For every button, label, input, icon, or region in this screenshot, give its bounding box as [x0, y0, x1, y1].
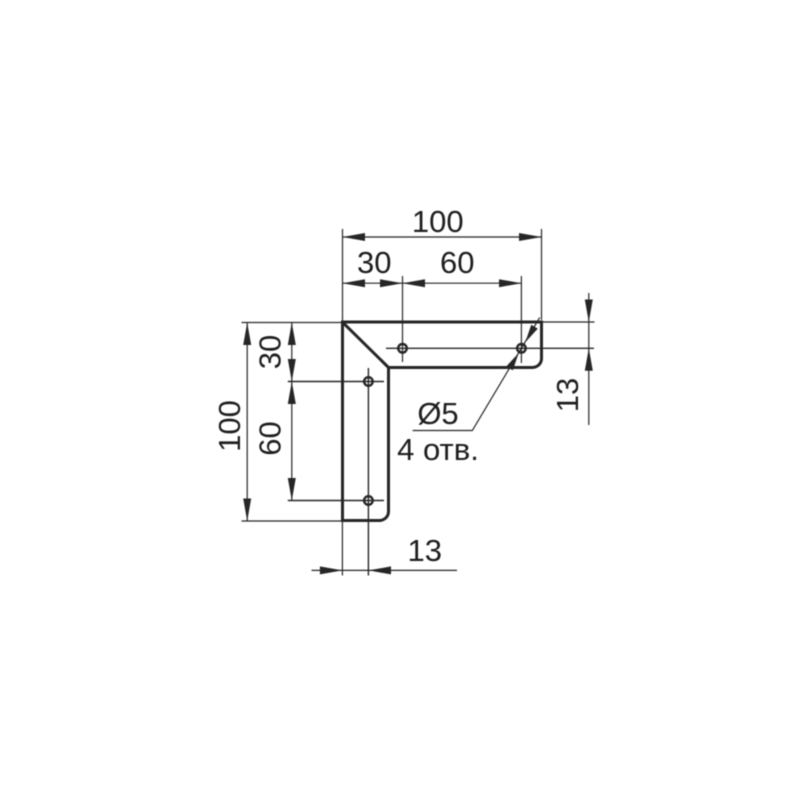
svg-text:13: 13 [408, 533, 442, 568]
arrow 60 left top [288, 382, 296, 405]
extension line top edge right [543, 321, 595, 323]
arrow 30 top left [343, 279, 366, 287]
arrow 13 right top outside [585, 300, 593, 323]
hole 2 [517, 344, 526, 353]
svg-text:Ø5: Ø5 [417, 396, 458, 431]
bracket outline [343, 322, 542, 521]
arrow 13 right bottom outside [585, 348, 593, 371]
arrow 100 left bottom [243, 499, 251, 522]
leader arrow lower pointing at hole [506, 353, 519, 370]
svg-text:100: 100 [412, 204, 464, 239]
arrow 30 left bottom [288, 359, 296, 382]
svg-text:60: 60 [440, 245, 474, 280]
extension line left edge bottom [341, 521, 343, 576]
arrow 13 bottom left outside [320, 566, 343, 574]
dimension line 100 left vertical [246, 323, 248, 522]
dimension line 100 top [343, 236, 542, 238]
hole 4 [364, 496, 373, 505]
extension line hole2 vertical [520, 276, 522, 363]
leader line under diameter label [413, 318, 540, 431]
dimension line 30-60 top [343, 282, 522, 284]
dimension line 13 right vertical [588, 293, 590, 425]
arrow 60 left bottom [288, 478, 296, 501]
dimension line 13 bottom [312, 569, 458, 571]
center line through holes 3-4 [367, 368, 369, 576]
arrow 30 top right [380, 279, 403, 287]
leader arrow upper pointing at hole [525, 325, 538, 342]
svg-text:100: 100 [212, 400, 247, 452]
dimension line 30-60 left vertical [291, 323, 293, 501]
extension line left edge top [342, 229, 344, 321]
extension line hole4 horizontal [288, 500, 384, 502]
svg-text:60: 60 [253, 421, 288, 455]
arrow 13 bottom right outside [369, 566, 392, 574]
bend line diagonal [343, 323, 389, 368]
center line through holes 1-2 [386, 347, 594, 349]
arrow 60 top left [403, 279, 426, 287]
arrow 60 top right [499, 279, 521, 287]
arrow 100 top left [343, 233, 366, 241]
svg-text:30: 30 [357, 245, 391, 280]
hole 3 [364, 377, 373, 386]
extension line top-left horizontal [242, 322, 343, 324]
extension line hole3 horizontal [288, 381, 384, 383]
svg-text:13: 13 [550, 378, 585, 412]
extension line hole1 vertical [402, 276, 404, 362]
hole 1 [398, 344, 407, 353]
arrow 100 top right [519, 233, 542, 241]
extension line right edge top [541, 229, 543, 320]
arrow 100 left top [243, 323, 251, 346]
arrow 30 left top [288, 323, 296, 346]
svg-text:30: 30 [253, 335, 288, 369]
svg-text:4 отв.: 4 отв. [397, 432, 479, 467]
extension line bottom-left horizontal [242, 520, 343, 522]
